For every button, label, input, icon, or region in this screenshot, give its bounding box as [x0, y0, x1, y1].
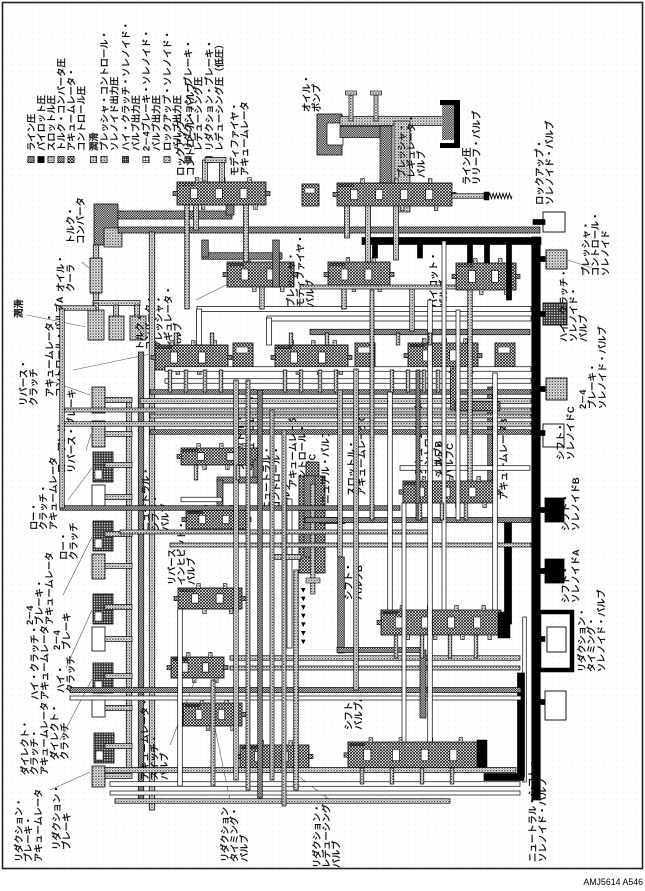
- pipe white bus return 2: [165, 379, 531, 384]
- svg-text:ソレノイドA: ソレノイドA: [570, 549, 581, 603]
- svg-text:2－4: 2－4: [25, 605, 35, 625]
- pipe bundle horizontal py508: [60, 506, 400, 511]
- pipe bundle vertical x356: [354, 369, 359, 690]
- modifier accumulator: [302, 184, 319, 206]
- svg-text:ソレノイド・バルブ: ソレノイド・バルブ: [596, 326, 607, 409]
- reduction timing solenoid valve: [547, 627, 566, 652]
- svg-text:コントロール・: コントロール・: [591, 212, 601, 276]
- pipe bundle vertical x284: [282, 430, 286, 806]
- svg-text:リダクション・ブレーキ・: リダクション・ブレーキ・: [203, 39, 214, 151]
- svg-text:アキュームレータ: アキュームレータ: [239, 101, 250, 176]
- pilot valve: [456, 263, 516, 290]
- svg-text:2－4ブレーキ・ソレノイド・: 2－4ブレーキ・ソレノイド・: [140, 29, 151, 151]
- legend swatch ライン圧: [28, 157, 34, 163]
- svg-text:コントロール圧: コントロール圧: [77, 85, 87, 151]
- svg-text:バルブ: バルブ: [415, 150, 426, 178]
- pipe bundle horizontal py690: [70, 688, 521, 693]
- 2-4 brake: [92, 554, 105, 579]
- pressure modifier valve: [328, 262, 390, 287]
- leader reduction reducing valve: [290, 770, 330, 800]
- pipe left vertical bus B: [138, 352, 144, 800]
- pipe left edge vertical x62: [60, 309, 65, 508]
- leader accumulator control valve A: [73, 352, 160, 370]
- pressure regulator valve: [337, 183, 452, 206]
- svg-text:レギュレータ・: レギュレータ・: [406, 114, 417, 178]
- pipe bundle horizontal py668: [230, 666, 520, 670]
- svg-text:2－4: 2－4: [578, 389, 588, 409]
- svg-text:リダクション・: リダクション・: [13, 798, 24, 862]
- shift solenoid C: [543, 424, 564, 447]
- pipe bundle vertical x430: [428, 300, 433, 742]
- svg-text:クラッチ・: クラッチ・: [39, 484, 49, 530]
- pipe bundle vertical x495: [493, 373, 498, 610]
- pipe from accumulator switch down: [211, 680, 215, 786]
- svg-text:プレッシャ・: プレッシャ・: [580, 221, 591, 276]
- svg-text:ブレーキ・: ブレーキ・: [23, 816, 34, 862]
- reduction timing valve: [183, 703, 242, 726]
- legend swatch アキュームレータ・: [68, 157, 74, 163]
- svg-text:スロットル圧: スロットル圧: [46, 95, 56, 151]
- hatch pipe near accumulator control valve B: [451, 368, 460, 410]
- pipe pump top band: [340, 117, 452, 126]
- svg-text:ハイ・クラッチ・ソレノイド・: ハイ・クラッチ・ソレノイド・: [121, 21, 131, 151]
- oil strainer: [442, 104, 456, 140]
- pipe bundle horizontal py520: [305, 518, 531, 523]
- pipe bundle horizontal py532: [120, 530, 430, 534]
- svg-text:パイロット圧: パイロット圧: [35, 95, 46, 151]
- reduction brake: [92, 766, 105, 787]
- pipe white bus return 1: [165, 367, 531, 372]
- svg-text:アキュームレータ: アキュームレータ: [47, 457, 58, 530]
- leader low clutch accumulator: [68, 468, 92, 500]
- legend swatch 潤滑: [90, 157, 96, 163]
- svg-text:スイッチ・: スイッチ・: [150, 734, 160, 780]
- svg-text:アキュームレータ: アキュームレータ: [43, 552, 54, 625]
- svg-text:ソレノイド出力圧: ソレノイド出力圧: [109, 76, 120, 151]
- pipe lockup valve drops: [194, 205, 199, 230]
- pipe bundle horizontal py698: [70, 696, 521, 700]
- 2-4 brake accumulator: [93, 521, 113, 551]
- svg-text:ソレノイドC: ソレノイドC: [565, 406, 576, 460]
- leader lockup control valve label: [200, 178, 210, 184]
- pipe white left of manual valve: [287, 499, 292, 648]
- reverse inhibit valve: [178, 588, 242, 609]
- svg-text:アキュームレータ: アキュームレータ: [38, 702, 49, 775]
- leader high clutch accumulator: [66, 610, 92, 668]
- leader reduction brake: [50, 772, 90, 790]
- pipe bundle horizontal py416: [150, 414, 531, 418]
- svg-text:リダクション・: リダクション・: [576, 608, 587, 672]
- svg-text:トルク・コンバータ圧: トルク・コンバータ圧: [55, 58, 66, 151]
- pipe bundle horizontal py432: [150, 430, 531, 435]
- shift solenoid B: [545, 498, 564, 522]
- manual valve arm: [319, 518, 345, 524]
- pump vent stubs: [349, 95, 353, 121]
- svg-text:潤滑: 潤滑: [88, 132, 99, 151]
- direct clutch accumulator: [93, 663, 113, 693]
- accumulator switch valve: [171, 657, 224, 678]
- legend swatch パイロット圧: [38, 157, 44, 163]
- torque converter: [94, 204, 118, 245]
- leader low and reverse brake: [86, 434, 91, 450]
- valve row upper stems: [174, 333, 178, 345]
- shift valve A: [348, 742, 480, 768]
- accumulator control valve B: [408, 343, 478, 368]
- legend swatch トルク・コンバータ圧: [58, 157, 64, 163]
- pipe md L below manual valve: [420, 650, 426, 718]
- tc pressure regulator valve: [227, 262, 294, 287]
- svg-text:ソレノイド・バルブ: ソレノイド・バルブ: [595, 589, 606, 672]
- md bridge above tc regulator valve: [202, 253, 282, 260]
- svg-text:バルブ: バルブ: [158, 752, 169, 780]
- pipe white right py468: [400, 466, 530, 471]
- neutral shift valve stems: [194, 465, 198, 480]
- svg-text:クラッチ: クラッチ: [28, 368, 39, 406]
- pipe bundle horizontal py658: [230, 656, 520, 661]
- pipe bundle horizontal py400: [140, 399, 531, 404]
- pump dark elbow: [340, 127, 392, 138]
- manual valve: [306, 462, 319, 476]
- leader lubrication: [27, 315, 86, 327]
- legend swatch プレッシャ・コントロール・: [101, 157, 107, 163]
- pipe bundle vertical x236: [234, 380, 239, 780]
- svg-text:ブレーキ・: ブレーキ・: [34, 579, 45, 625]
- manual valve drain arrows: [301, 588, 306, 593]
- svg-text:ソレノイド・バルブ: ソレノイド・バルブ: [537, 777, 548, 862]
- svg-text:ブレーキ: ブレーキ: [61, 812, 72, 850]
- pipe bundle vertical x458: [456, 310, 460, 520]
- svg-text:ライン圧: ライン圧: [26, 113, 36, 151]
- pipe bundle vertical x372: [370, 290, 374, 520]
- legend swatch スロットル圧: [48, 157, 54, 163]
- svg-text:タイミング・: タイミング・: [586, 617, 597, 672]
- leader reduction timing valve: [215, 728, 230, 800]
- high clutch: [92, 627, 105, 651]
- pipe white near bus: [523, 617, 527, 782]
- pipe bundle horizontal py424: [60, 422, 531, 427]
- svg-text:バルブ: バルブ: [185, 557, 196, 585]
- md loop below neutral shift valve: [253, 460, 259, 483]
- svg-text:ブレーキ・: ブレーキ・: [587, 363, 598, 409]
- reverse clutch: [92, 387, 105, 413]
- svg-text:アキュームレータ: アキュームレータ: [39, 625, 50, 700]
- black loop around timing solenoid: [539, 612, 572, 670]
- svg-text:リバース・ブレーキ: リバース・ブレーキ: [66, 389, 77, 473]
- pipe bundle vertical x296: [294, 570, 299, 790]
- throttle accumulator B: [495, 343, 515, 369]
- leader tc regulator: [196, 278, 240, 300]
- svg-text:タイミング・: タイミング・: [229, 807, 240, 862]
- pipe trunk converter line: [118, 227, 540, 233]
- svg-text:コンバータ: コンバータ: [75, 197, 86, 244]
- svg-text:バルブ出力圧: バルブ出力圧: [151, 95, 162, 151]
- reduction brake accumulator: [94, 733, 114, 763]
- shift valve B: [381, 610, 501, 635]
- svg-text:リダクション・: リダクション・: [311, 804, 322, 868]
- leader direct clutch accumulator: [60, 679, 92, 740]
- pipe bundle horizontal py793: [110, 791, 520, 795]
- pipe left vertical bus C: [149, 232, 155, 810]
- black L shift valve B: [505, 518, 512, 624]
- lockup control valve: [177, 182, 266, 205]
- low clutch: [92, 485, 105, 509]
- pipe bundle vertical x260: [258, 390, 263, 798]
- svg-text:バルブ出力圧: バルブ出力圧: [130, 95, 141, 151]
- high clutch solenoid valve: [543, 303, 567, 325]
- pipe bundle horizontal py287: [300, 285, 456, 289]
- shift valve C: [403, 481, 496, 503]
- pipe regulator drops: [345, 206, 350, 238]
- pipe main line bus 1 white: [197, 307, 531, 312]
- throttle accumulator C: [355, 343, 375, 369]
- shift valve C stems: [418, 503, 422, 520]
- svg-text:ロックアップ・ソレノイド・: ロックアップ・ソレノイド・: [161, 30, 172, 151]
- accumulator control valve C: [275, 345, 348, 370]
- svg-text:潤滑: 潤滑: [13, 299, 24, 318]
- svg-text:シフト・: シフト・: [151, 494, 161, 531]
- black solenoid supply bus: [532, 237, 541, 800]
- direct clutch: [92, 696, 105, 717]
- md vertical to shift valve C: [488, 387, 493, 481]
- svg-text:ニュートラル・: ニュートラル・: [141, 467, 151, 531]
- pipe bundle vertical x404: [402, 503, 406, 742]
- 2-4 brake solenoid valve: [546, 378, 567, 400]
- valve row lower stems: [168, 370, 172, 392]
- leader reverse clutch: [48, 380, 90, 395]
- svg-text:モディファイヤ・: モディファイヤ・: [295, 234, 306, 307]
- pipe black trunk top: [362, 238, 541, 245]
- shift solenoid A: [545, 559, 564, 583]
- pipe bundle horizontal py392: [150, 390, 531, 395]
- svg-text:プレッシャ・コントロール・: プレッシャ・コントロール・: [98, 30, 109, 151]
- pipe bundle vertical x418: [416, 370, 420, 520]
- leader 2-4 brake accumulator: [63, 537, 92, 595]
- neutral shift valve: [181, 448, 258, 465]
- svg-text:ソレノイド・バルブ: ソレノイド・バルブ: [544, 120, 555, 205]
- pump light column: [394, 121, 410, 212]
- svg-text:レデューシング・: レデューシング・: [321, 795, 332, 868]
- line pressure relief valve: [452, 194, 484, 199]
- svg-text:プレッシャ・: プレッシャ・: [285, 252, 296, 307]
- throttle accumulator A: [233, 343, 253, 369]
- pipe bundle horizontal py410: [60, 408, 531, 412]
- pressure control solenoid: [546, 250, 567, 269]
- inhibit valve upper: [186, 510, 247, 529]
- svg-text:トルク・: トルク・: [135, 313, 145, 350]
- lubrication boxes: [88, 310, 104, 340]
- pipe main line bus 3: [310, 329, 530, 335]
- pipe bundle vertical x470: [468, 290, 473, 481]
- lockup solenoid valve: [543, 212, 565, 232]
- pipe oil cooler to torque converter: [93, 245, 99, 258]
- svg-text:バルブ: バルブ: [330, 840, 341, 868]
- legend swatch リダクション・ブレーキ・: [206, 157, 212, 163]
- pipe bundle vertical x444: [442, 241, 446, 610]
- legend swatch ハイ・クラッチ・ソレノイド・: [122, 157, 128, 163]
- svg-text:ポンプ: ポンプ: [311, 84, 322, 112]
- svg-text:リダクション・: リダクション・: [219, 798, 230, 862]
- reduction reducing valve: [240, 745, 309, 768]
- black L shift valve A: [518, 673, 525, 777]
- low and reverse brake: [92, 421, 105, 447]
- svg-text:コントロール・バルブ: コントロール・バルブ: [185, 82, 196, 176]
- svg-text:マニュアル・バルブ: マニュアル・バルブ: [320, 428, 331, 513]
- legend swatch リダクション・ブレーキ・: [185, 157, 191, 163]
- svg-text:クラッチ: クラッチ: [59, 722, 70, 760]
- pipe bundle vertical x248: [246, 380, 250, 790]
- pipe bundle horizontal py784: [110, 782, 520, 787]
- leader oil cooler: [82, 262, 89, 268]
- pipe bundle vertical x390: [388, 392, 393, 610]
- svg-text:ロー・: ロー・: [29, 502, 39, 530]
- shift valve A stems: [360, 768, 364, 784]
- svg-text:アキュームレータ・: アキュームレータ・: [65, 68, 76, 151]
- oil cooler: [90, 258, 102, 293]
- black drop to pilot: [468, 241, 473, 263]
- shift valve B stems: [394, 635, 398, 658]
- high clutch accumulator: [93, 594, 113, 624]
- svg-text:ソレノイドB: ソレノイドB: [570, 477, 581, 531]
- low clutch accumulator: [93, 452, 113, 482]
- pipe bundle vertical x340: [338, 390, 343, 557]
- svg-text:ハイ・クラッチ・: ハイ・クラッチ・: [559, 269, 569, 342]
- svg-text:バルブ: バルブ: [577, 314, 588, 342]
- svg-text:バルブ: バルブ: [238, 834, 249, 862]
- pipe main line bus 1 left stub: [59, 306, 96, 311]
- pipe white stub left of inhibit valve: [181, 497, 222, 502]
- pipe bundle horizontal py801: [115, 799, 450, 804]
- pipe main line bus 2 white: [267, 316, 531, 321]
- solenoid stubs: [533, 220, 545, 225]
- svg-text:ソレノイド: ソレノイド: [600, 230, 610, 276]
- pipe trunk torque converter feed: [118, 211, 232, 219]
- svg-text:ソレノイド・: ソレノイド・: [569, 287, 579, 342]
- svg-text:リリーフ・バルブ: リリーフ・バルブ: [471, 110, 482, 185]
- pipe white from reverse inhibit down: [178, 609, 183, 786]
- pipe bundle horizontal py545: [170, 543, 531, 547]
- pipe left vertical bus A: [126, 398, 132, 772]
- svg-text:クーラ: クーラ: [65, 264, 76, 292]
- accumulator control valve A: [155, 345, 228, 370]
- svg-text:ダイレクト・: ダイレクト・: [19, 720, 30, 775]
- leader pressure control solenoid: [568, 260, 592, 268]
- neutral shift solenoid valve: [545, 691, 566, 720]
- legend swatch 2－4ブレーキ・ソレノイド・: [143, 157, 149, 163]
- oil pump body: [317, 114, 342, 155]
- svg-text:レデューシング圧（低圧）: レデューシング圧（低圧）: [214, 40, 225, 151]
- svg-text:バルブ: バルブ: [304, 279, 315, 307]
- pipe oil cooler to lube boxes: [93, 293, 99, 305]
- svg-text:クラッチ・: クラッチ・: [30, 729, 40, 775]
- legend swatch ロックアップ・ソレノイド・: [164, 157, 170, 163]
- pipe bundle horizontal py770: [105, 768, 516, 773]
- left box stubs: [105, 398, 132, 403]
- pipe bundle vertical x272: [270, 410, 274, 780]
- svg-text:アキュームレータ: アキュームレータ: [32, 789, 43, 862]
- svg-text:プレッシャ・: プレッシャ・: [396, 123, 407, 178]
- svg-text:ブレーキ: ブレーキ: [61, 612, 72, 650]
- leader accumulator switch valve: [170, 680, 195, 745]
- svg-text:クラッチ: クラッチ: [68, 522, 79, 560]
- svg-text:AMJ5614 A546: AMJ5614 A546: [583, 877, 643, 887]
